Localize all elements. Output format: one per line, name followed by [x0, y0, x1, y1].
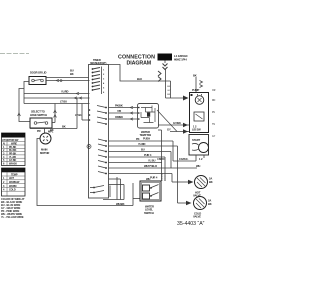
bus x133	[132, 183, 134, 206]
lid switch label	[30, 71, 46, 75]
svg-text:BLK: BLK	[137, 77, 142, 81]
svg-text:BK: BK	[209, 180, 213, 184]
svg-text:WH: WH	[196, 164, 200, 168]
svg-text:BU: BU	[70, 69, 74, 73]
table 2	[2, 168, 26, 196]
wire motor left lead down	[37, 139, 133, 206]
svg-text:WH-BK: WH-BK	[9, 163, 17, 166]
svg-text:OR: OR	[212, 90, 216, 92]
select switch label	[30, 110, 47, 117]
svg-text:PU: PU	[212, 112, 216, 114]
svg-text:YL BU: YL BU	[148, 159, 155, 163]
wire L1 down	[165, 70, 167, 99]
wire to pump	[166, 97, 184, 99]
svg-text:GY: GY	[167, 90, 171, 92]
svg-text:TEMP SW: TEMP SW	[140, 133, 152, 137]
svg-text:60HZ 1PH: 60HZ 1PH	[174, 58, 186, 62]
timer right wires	[109, 140, 174, 142]
wire BU	[46, 77, 89, 79]
timer label	[90, 58, 107, 65]
svg-text:WARM-W: WARM-W	[9, 181, 20, 184]
capacitor wire	[173, 160, 196, 162]
right margin labels	[212, 90, 216, 138]
pump motor circle	[195, 96, 204, 105]
svg-text:PUMP: PUMP	[192, 88, 200, 92]
svg-text:COLD: COLD	[9, 189, 16, 192]
pump inner contact	[194, 112, 204, 121]
svg-text:PUR 4: PUR 4	[144, 153, 152, 157]
timer lower contacts	[98, 139, 107, 174]
svg-text:PK/BK: PK/BK	[115, 103, 123, 107]
svg-text:GY: GY	[212, 136, 216, 138]
temp switch wires	[109, 107, 139, 109]
svg-text:PUSH: PUSH	[143, 137, 150, 141]
L1 supply black box	[158, 54, 173, 61]
select right lead	[52, 122, 55, 124]
svg-text:GY-BK: GY-BK	[9, 159, 17, 162]
pressure box top leads	[161, 174, 163, 182]
title CONNECTION DIAGRAM	[118, 55, 155, 67]
svg-text:LID SW: LID SW	[192, 128, 201, 132]
svg-text:AT MOTOR SW: AT MOTOR SW	[2, 139, 19, 142]
start leads	[195, 155, 197, 161]
drive motor M1	[40, 133, 51, 144]
svg-text:START: START	[192, 138, 201, 142]
wire label bottom	[116, 202, 125, 206]
wire to cold valve	[178, 202, 187, 204]
scan fold line	[0, 53, 29, 55]
svg-text:BU: BU	[141, 148, 145, 152]
timer mid contacts	[97, 106, 107, 125]
start box	[189, 135, 209, 156]
legend text	[1, 197, 25, 219]
wire L1 branch	[170, 81, 172, 98]
wire lid left lead	[24, 82, 29, 104]
supply cord symbol	[158, 61, 168, 82]
svg-text:2A: 2A	[208, 199, 211, 203]
svg-text:GY/BK: GY/BK	[173, 121, 181, 125]
connector on timer edge	[87, 145, 91, 149]
svg-text:Y/R: Y/R	[117, 109, 121, 113]
bus x82	[81, 104, 83, 121]
svg-text:LT BU: LT BU	[60, 100, 67, 104]
svg-text:SWITCH: SWITCH	[144, 211, 154, 215]
wire Y	[46, 80, 90, 82]
pump box	[190, 93, 209, 133]
svg-text:WHT/YELO: WHT/YELO	[144, 164, 157, 168]
svg-text:WH: WH	[146, 177, 150, 181]
svg-text:WATER TEMP SW: WATER TEMP SW	[3, 170, 23, 173]
svg-text:PR: PR	[37, 129, 41, 133]
right buses	[164, 157, 166, 181]
svg-text:4 MFD: 4 MFD	[157, 157, 165, 161]
svg-text:WATER: WATER	[141, 130, 150, 134]
svg-text:DIAGRAM: DIAGRAM	[127, 61, 152, 67]
svg-text:MOTOR: MOTOR	[40, 151, 49, 155]
bottom contact wires	[116, 177, 118, 200]
table 1	[2, 133, 26, 166]
pressure switch box	[140, 181, 161, 201]
temp switch box	[138, 104, 159, 129]
connector arrow pump	[183, 96, 189, 101]
hot water valve	[195, 176, 208, 189]
supply label text	[174, 54, 189, 62]
bus x77	[76, 98, 78, 129]
svg-text:HOT: HOT	[9, 177, 14, 180]
svg-text:BK: BK	[50, 128, 54, 132]
wire LT BU	[24, 103, 90, 105]
svg-text:YL - YELLOW WIRE: YL - YELLOW WIRE	[1, 215, 24, 219]
temp to pump wires	[158, 124, 190, 126]
timer box	[89, 65, 109, 199]
svg-text:BK: BK	[70, 72, 74, 76]
svg-text:35-4403 “A”: 35-4403 “A”	[177, 221, 205, 227]
wire BK left	[24, 97, 90, 99]
wire left bus	[19, 89, 30, 122]
svg-text:WARM: WARM	[9, 185, 16, 188]
svg-text:GY: GY	[167, 127, 171, 131]
svg-text:YL/RD: YL/RD	[61, 90, 69, 94]
wire YL/RD	[24, 93, 90, 95]
svg-text:MOTOR SW BLOCK: MOTOR SW BLOCK	[3, 135, 25, 138]
BK tick labels on supply line	[167, 86, 171, 96]
svg-text:WH/BK: WH/BK	[116, 202, 125, 206]
svg-text:BK: BK	[208, 202, 212, 206]
motor labels	[37, 128, 54, 133]
svg-text:YL/RD: YL/RD	[138, 142, 146, 146]
svg-text:LT BU: LT BU	[75, 113, 82, 117]
bus x55 select	[54, 104, 56, 123]
arrow on left bus	[18, 113, 21, 116]
svg-text:VALVE: VALVE	[193, 215, 201, 219]
svg-text:DOOR OR LID: DOOR OR LID	[30, 71, 46, 75]
wire pressure box lead	[133, 198, 140, 200]
svg-text:OR/BK: OR/BK	[115, 115, 123, 119]
lid switch box	[29, 77, 46, 85]
cold water valve	[194, 197, 207, 210]
timer upper contact column	[92, 67, 105, 95]
svg-text:HAVE SWITCH: HAVE SWITCH	[30, 113, 47, 117]
wire motor top	[30, 129, 77, 134]
svg-text:TN: TN	[212, 124, 215, 126]
wire to hot valve	[172, 181, 188, 183]
wire BLK timer to supply	[109, 65, 171, 82]
svg-text:PUR 4: PUR 4	[150, 175, 158, 179]
svg-text:PK: PK	[136, 137, 140, 141]
select switch box	[30, 118, 52, 128]
wire timer entry y120	[82, 119, 89, 121]
svg-text:BK: BK	[62, 124, 66, 128]
pump lead top	[193, 74, 197, 78]
timer bottom contacts	[90, 186, 104, 194]
lid switch contacts	[32, 79, 44, 82]
svg-text:2A: 2A	[209, 177, 212, 181]
svg-text:RD: RD	[212, 100, 216, 102]
svg-text:CAPAC.: CAPAC.	[179, 157, 189, 161]
svg-text:TEMP: TEMP	[11, 173, 18, 176]
